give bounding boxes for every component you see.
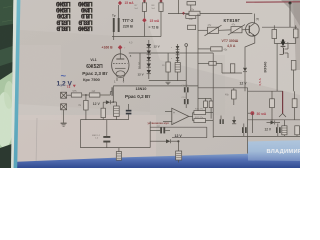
resistor R input 2 [89,90,112,97]
resistor R16 [193,109,214,115]
node +166 В [102,45,126,50]
junction node top right [262,2,297,28]
ground X2 [61,123,67,126]
resistor R3 vertical [79,100,89,119]
resistor R input 1 [71,90,81,97]
AC input 1,2 V [57,71,73,88]
paper background [0,0,300,168]
bottom bus right [213,135,300,137]
resistor R17 [193,117,214,123]
label 12 V + diode VD (bottom mid) [150,134,182,151]
label КТ819Г [224,17,260,23]
resistor R right 3 [291,61,296,92]
capacitor C small (lower mid) [220,116,224,125]
transformer Тр ТГГ-2 [112,5,120,40]
wires op-amp bottom loop [150,121,207,147]
resistor R25 [168,7,252,20]
mains line (dark red) [246,1,300,3]
resistor R lower right 2 [292,91,297,120]
wire grid feed + terminal [185,44,188,88]
capacitor C (bottom right 2) [276,124,281,137]
capacitor МБГО-2 [92,120,110,148]
ground bus [149,81,186,85]
label ТГГ-2 220 В [122,18,134,29]
wire: tube pin 8 to cathode bus [129,53,213,69]
resistor R lower right 3 [295,126,300,137]
terminal X1 [61,92,72,98]
diode VD (lower mid) [232,117,236,124]
resistor R vertical mid [230,64,234,73]
label VT7 300W 4,5 А [222,39,239,48]
trimmer RP1 [198,24,231,36]
resistor R small mid [198,62,242,73]
labels anode resistors [135,5,156,10]
node: red diamond, 15 мА, 72 В [142,18,160,37]
node: red diamond, 15 мА [118,1,134,5]
electrolytic C mid [114,106,120,120]
capacitor C film (dark) [126,104,132,120]
trimmer RP2 [228,23,247,35]
resistor R base bias [198,47,228,52]
capacitor C1 (op-amp top) [182,85,189,99]
node 30 мА (red) [248,111,267,116]
title text ВЛАДИМИР (white on blue) [267,149,302,155]
label VL1 6Ж52П Ррас 2,3 Вт Крс 7500 [82,58,108,82]
resistor R cathode [162,53,170,81]
op-amp DA1 [163,108,193,124]
bus middle right [198,88,283,154]
cyan border strip [14,0,21,168]
resistor R4 vertical [101,108,105,119]
wire: left spine [197,14,199,111]
small RC components top [182,2,196,30]
diode VD right [274,39,295,91]
diode VD source [103,100,116,108]
terminal X2 [61,104,67,123]
tube list column 1 [56,2,71,33]
ground bus mid [80,119,128,121]
green mat background (left edge) [0,0,14,168]
MOSFET IRF640 [264,44,289,73]
MOSFET VT 13N10 [112,86,198,102]
resistor R vertical (feedback) [225,88,236,105]
transistor VT7 КТ819Г [245,14,259,68]
zener stack VD2 (right column) [171,44,179,62]
wire loop bottom-left [80,120,150,148]
capacitor C (bottom right 1) [242,124,247,137]
resistor R (into blue band) 2 [116,148,121,161]
resistor R right 2 [293,25,298,43]
electrolytic C cathode [175,53,180,81]
marker Т3 (red) [67,85,76,89]
maroon collector wire [279,91,286,117]
zener stack VD1 (left column) [146,40,159,79]
capacitor C3 (below op-amp) [150,126,170,134]
resistor R lower right 1 [270,91,275,122]
capacitor C2 [182,97,189,108]
resistor R (into blue band) 1 [176,151,182,163]
blue footer band [14,140,300,168]
wire junction [82,94,90,100]
resistor R right 1 [272,25,277,43]
resistors RC pair above [198,98,213,118]
paper edge strip [11,0,17,168]
tube VL1 6Ж52П [112,49,140,84]
diode VD lower right [267,121,281,125]
resistor R (anode feed 1) [142,0,146,18]
resistor R (anode feed 2) [159,0,163,36]
wires lower right [248,113,300,133]
tube list column 2 [78,2,93,33]
electrolytic C lower right [282,120,287,137]
wire right spine 2 [212,53,214,138]
photo grain overlay [0,0,300,168]
SCHEMATIC INK [56,0,300,163]
wire: top bus [112,0,179,37]
diode VD emitter [240,68,248,91]
